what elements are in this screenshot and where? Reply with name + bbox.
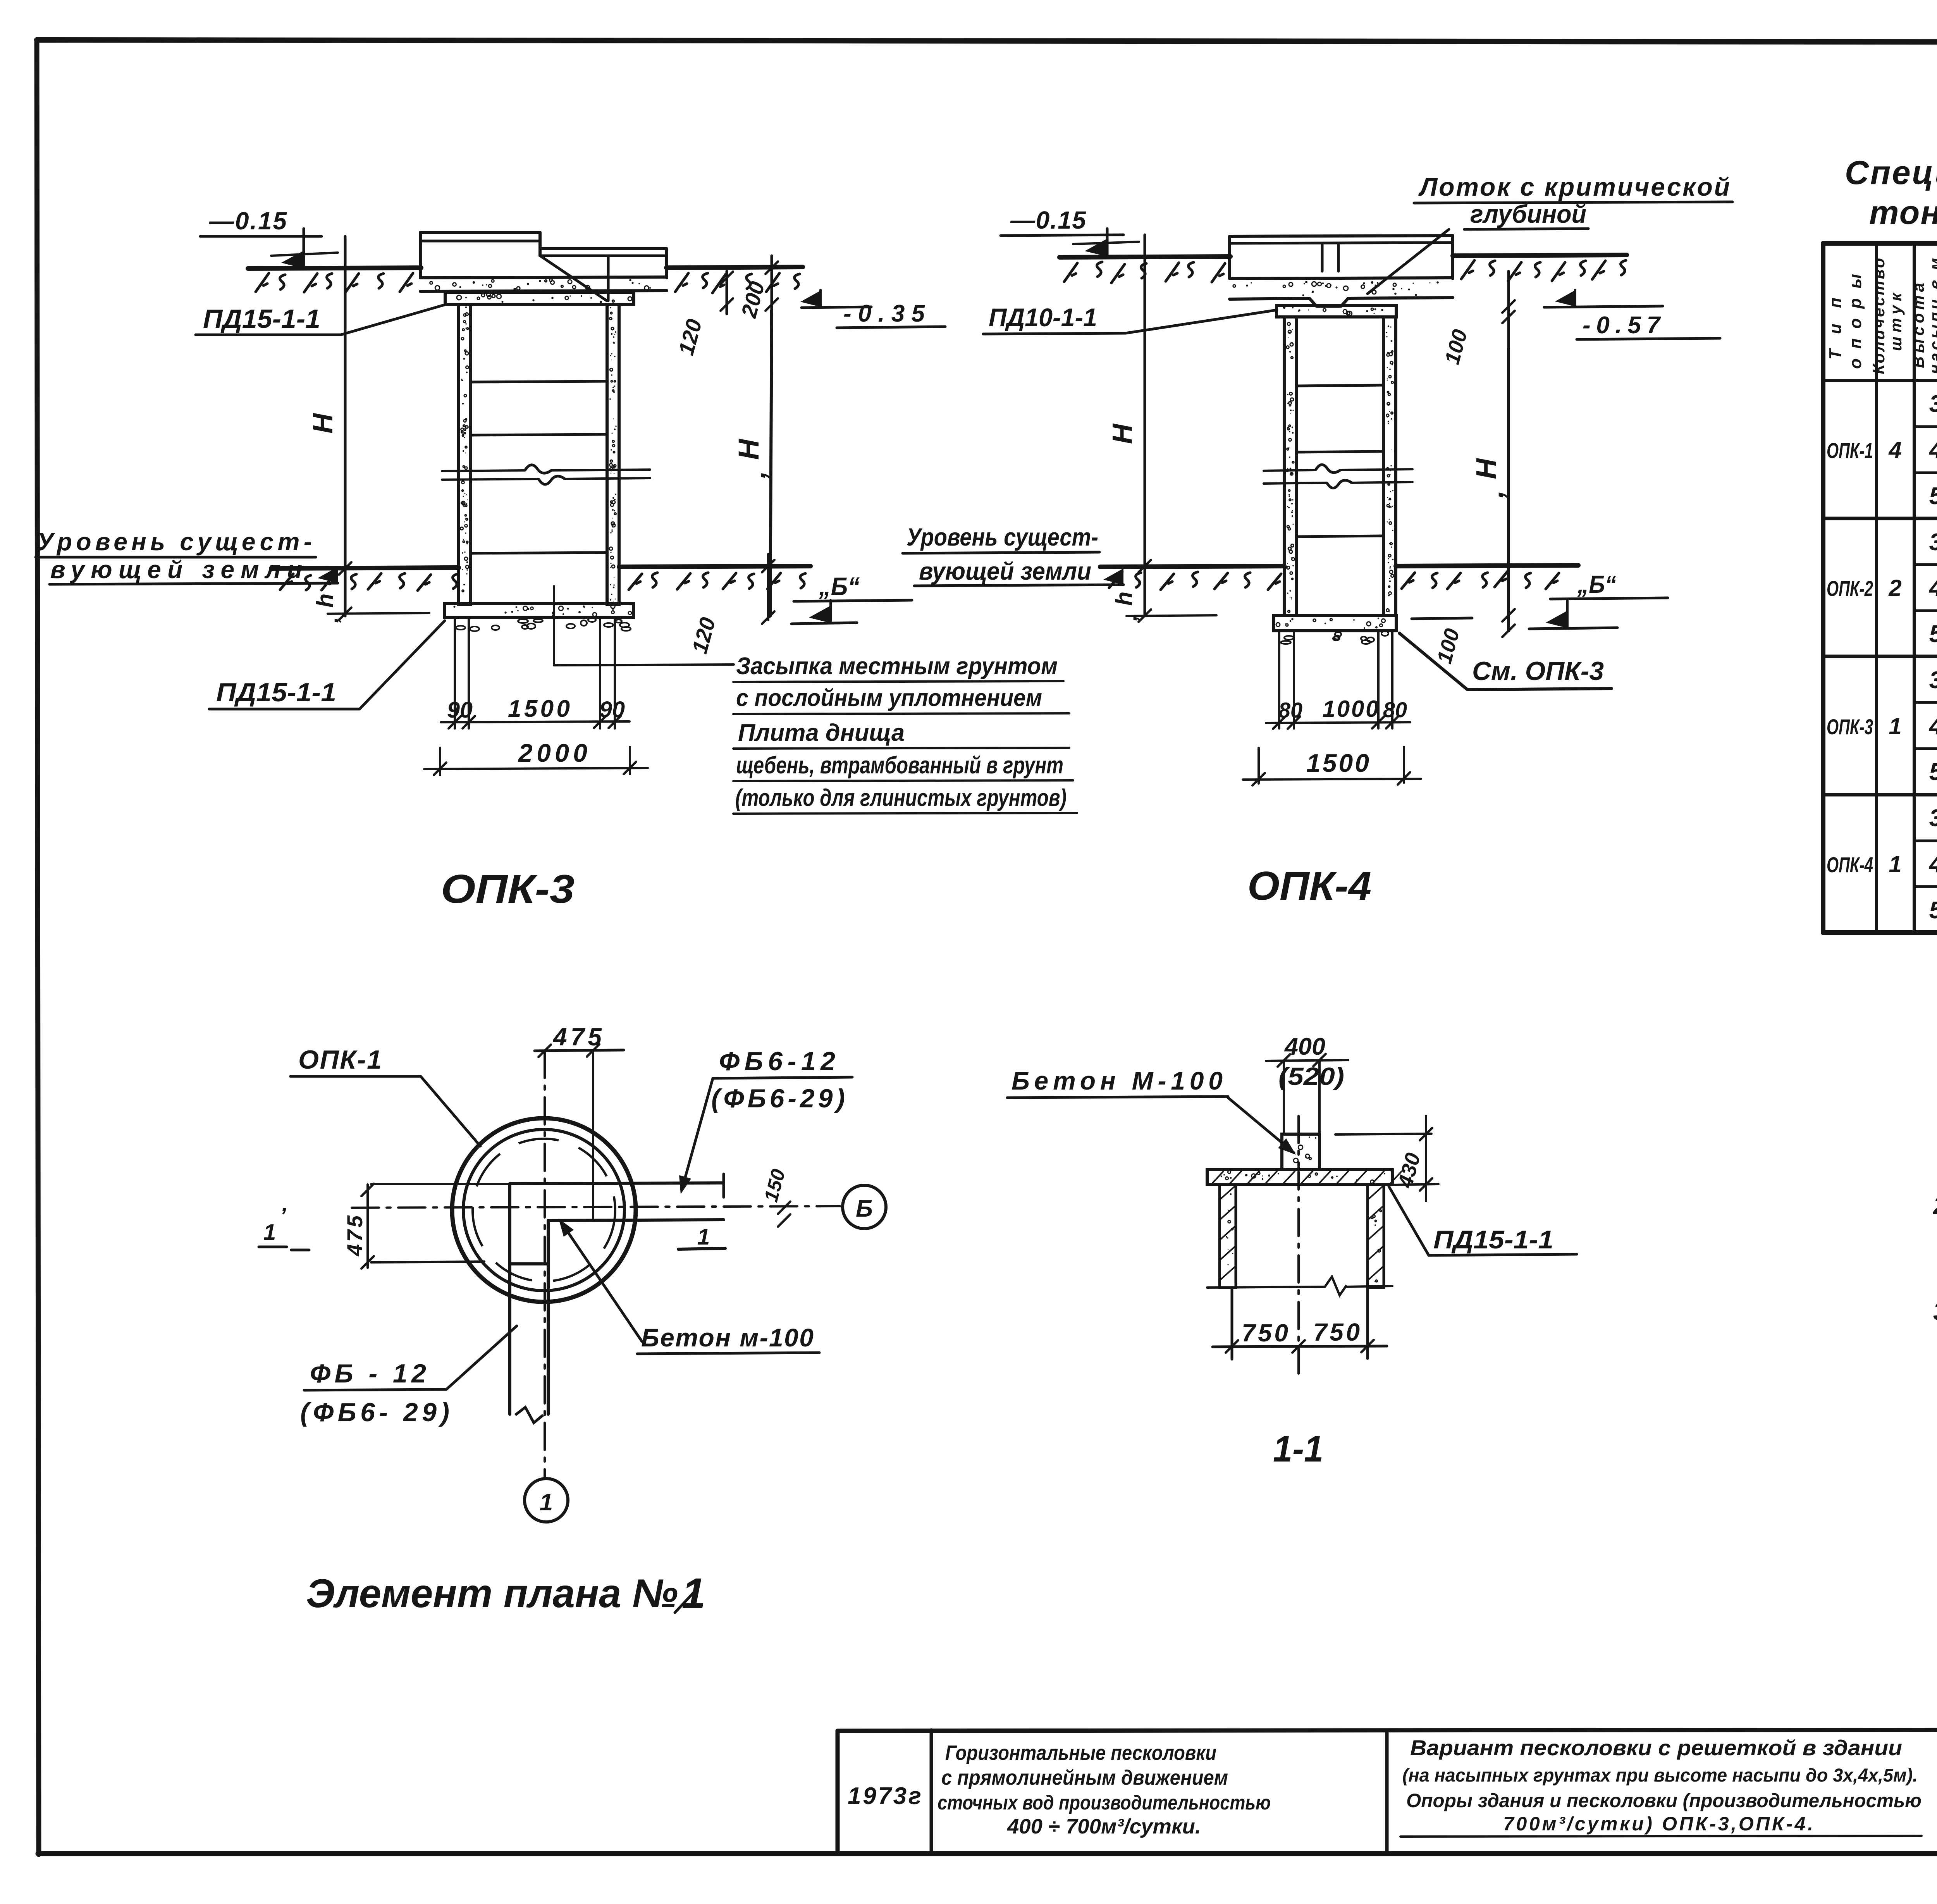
plan: label OPK-1 with leader: [291, 1045, 480, 1146]
plan: axis circle B: [843, 1185, 886, 1229]
svg-text:ОПК-1: ОПК-1: [1827, 438, 1873, 463]
OPK-3: column right wall: [607, 305, 619, 604]
svg-text:Горизонтальные песколовки: Горизонтальные песколовки: [945, 1741, 1216, 1765]
plan: centerline axis 1 vertical: [544, 1051, 546, 1477]
svg-text:2. Сборные железобетонные эл: 2. Сборные железобетонные элементы: [1932, 1191, 1937, 1220]
svg-text:5: 5: [1929, 483, 1937, 510]
svg-text:475: 475: [552, 1023, 602, 1051]
svg-text:H: H: [733, 439, 765, 460]
OPK-3: dimension 120 and 200 (top right): [674, 256, 778, 358]
svg-text:(520): (520): [1278, 1062, 1344, 1090]
OPK-4: dimension H (left vertical): [1107, 235, 1145, 616]
svg-text:„Б“: „Б“: [819, 572, 860, 601]
svg-text:тонных: тонных: [1869, 194, 1937, 231]
OPK-3: upper ground line left: [248, 268, 421, 269]
notes text: [1932, 1121, 1937, 1361]
svg-text:Засыпка местным грунтом: Засыпка местным грунтом: [736, 653, 1058, 680]
plan: section mark 1 (right): [678, 1224, 725, 1250]
section 1-1: dimension 750 750: [1213, 1287, 1387, 1359]
plan: dimension 475 left: [342, 1184, 510, 1269]
svg-text:ОПК-4: ОПК-4: [1827, 852, 1873, 877]
OPK-4: upper ground line right: [1453, 255, 1627, 256]
svg-text:3: 3: [1929, 391, 1937, 417]
OPK-3: lower ground line left: [271, 568, 459, 568]
OPK-4: label Sm. OPK-3: [1399, 633, 1612, 690]
OPK-4: dimension H1 (right vertical): [1470, 349, 1509, 631]
svg-text:штук: штук: [1887, 292, 1905, 351]
title block: project name column: [938, 1741, 1271, 1838]
OPK-3: rubble under plate: [456, 618, 631, 631]
section 1-1: left wall: [1220, 1184, 1236, 1288]
svg-text:ПД10-1-1: ПД10-1-1: [989, 303, 1097, 332]
svg-text:Плита днища: Плита днища: [738, 720, 905, 746]
OPK-3: label PD15-1-1 bottom with leader: [209, 621, 445, 709]
plan: outer shaft circle: [452, 1118, 636, 1302]
OPK-4: label Uroven suschestvuyuschey zemli: [903, 523, 1123, 586]
plan: label FB-12 (FB6-29) with leader: [300, 1326, 517, 1427]
svg-text:ПД15-1-1: ПД15-1-1: [216, 678, 336, 707]
svg-text:400 ÷ 700м³/сутки.: 400 ÷ 700м³/сутки.: [1007, 1815, 1201, 1838]
svg-text:щебень, втрамбованный в грунт: щебень, втрамбованный в грунт: [736, 752, 1063, 779]
OPK-4: dimension 100 (upper right): [1440, 271, 1515, 367]
OPK-3: bottom plate (plita dnishcha): [445, 604, 633, 618]
OPK-4: column right wall: [1383, 317, 1396, 615]
title block: year 1973: [848, 1783, 921, 1809]
svg-text:„Б“: „Б“: [1577, 570, 1616, 598]
svg-text:Элемент плана №: Элемент плана №: [306, 1571, 678, 1616]
OPK-4: column rungs: [1297, 385, 1383, 537]
svg-text:ПД15-1-1: ПД15-1-1: [203, 304, 320, 334]
OPK-4: level mark -0.15: [1001, 206, 1139, 257]
svg-text:ОПК-4: ОПК-4: [1247, 864, 1371, 909]
section 1-1: dimension 430 (right): [1335, 1116, 1438, 1201]
section 1-1: label Beton M-100 with arrow leader: [1007, 1066, 1296, 1155]
svg-text:ОПК-3: ОПК-3: [1827, 714, 1873, 739]
OPK-3: level mark B (lower right): [791, 572, 912, 624]
OPK-3: dimension H1 (right vertical): [733, 310, 772, 616]
svg-text:Количество: Количество: [1870, 258, 1888, 374]
svg-text:1: 1: [540, 1489, 553, 1516]
svg-text:90: 90: [447, 697, 473, 723]
svg-text:Уровень сущест-: Уровень сущест-: [37, 528, 312, 556]
specification table grid: [1823, 243, 1937, 933]
svg-text:3: 3: [1929, 529, 1937, 556]
OPK-4: bottom plate: [1274, 615, 1396, 631]
OPK-3: column rungs: [471, 381, 607, 553]
svg-text:475: 475: [342, 1215, 367, 1257]
plan: label Beton m-100 with arrow leader: [559, 1219, 819, 1354]
svg-text:3. Размеры в скобках для ст: 3. Размеры в скобках для стен: [1933, 1297, 1937, 1326]
svg-text:(только для глинистых грунтов): (только для глинистых грунтов): [735, 785, 1067, 811]
OPK-4: dimension line 80-1000-80: [1266, 631, 1410, 729]
OPK-3: label Uroven suschestvuyuschey zemli (existing ground level): [36, 528, 338, 584]
section 1-1: label PD15-1-1 with leader: [1389, 1186, 1577, 1255]
table header rotated: Vysota nasypi v m: [1909, 258, 1937, 374]
OPK-3: lower ground line right: [619, 566, 810, 567]
OPK-3: backfill notes text block: [733, 653, 1077, 814]
svg-text:1973г: 1973г: [848, 1783, 921, 1809]
OPK-4: earth hatch lower right: [1402, 571, 1559, 589]
svg-text:—0.15: —0.15: [1010, 206, 1086, 234]
svg-text:3: 3: [1929, 667, 1937, 694]
svg-text:с прямолинейным движением: с прямолинейным движением: [941, 1766, 1228, 1789]
table header rotated: Tip opory: [1826, 274, 1865, 369]
OPK-4: column left wall: [1284, 317, 1297, 615]
OPK-3: floor slab band: [420, 277, 667, 291]
section 1-1: dimension 400 (520): [1266, 1033, 1348, 1134]
OPK-3: mid-height break lines: [442, 465, 650, 484]
OPK-4: channel slab (lotok) band: [1230, 278, 1453, 306]
OPK-3: earth hatch upper left: [256, 273, 413, 292]
OPK-4: label Lotok s kriticheskoy glubinoy: [1368, 172, 1732, 294]
OPK-4: dimension h1 (small left): [1111, 560, 1216, 622]
OPK-3: earth hatch lower right: [629, 573, 805, 590]
plan: channel walls and corner block: [510, 1174, 724, 1423]
OPK-4: level mark B (lower right): [1529, 570, 1668, 629]
svg-text:750: 750: [1313, 1318, 1360, 1346]
OPK-3: upper ground line right: [666, 267, 803, 268]
svg-text:Опоры здания и песколовки (п: Опоры здания и песколовки (производитель…: [1406, 1790, 1922, 1811]
svg-text:Вариант песколовки с решеткой: Вариант песколовки с решеткой в здании: [1410, 1735, 1902, 1760]
svg-text:(ФБ6-29): (ФБ6-29): [711, 1084, 845, 1113]
svg-text:1-1: 1-1: [1273, 1428, 1323, 1470]
plan: inner shaft circle: [463, 1129, 624, 1291]
svg-text:’: ’: [280, 1203, 286, 1229]
svg-text:2: 2: [1888, 575, 1901, 601]
OPK-4: lower ground line left: [1100, 566, 1284, 567]
svg-text:Лоток с критической: Лоток с критической: [1418, 172, 1730, 201]
svg-text:с послойным уплотнением: с послойным уплотнением: [736, 685, 1042, 711]
svg-text:h: h: [1111, 592, 1137, 606]
OPK-3: backfill note leader line: [554, 586, 734, 665]
OPK-4: lower ground line right: [1396, 565, 1578, 566]
OPK-3: dimension h1 (small left): [312, 562, 429, 623]
plan: label FB6-12 (FB6-29) with arrow leader: [679, 1047, 852, 1194]
section 1-1: centerline: [1297, 1116, 1300, 1374]
specification table title: [1845, 154, 1937, 231]
svg-text:См. ОПК-3: См. ОПК-3: [1472, 656, 1604, 686]
OPK-4: dimension line 1500: [1243, 747, 1421, 785]
OPK-4: label PD10-1-1 (left) with leader: [983, 303, 1277, 334]
svg-text:400: 400: [1284, 1033, 1325, 1060]
svg-text:Б: Б: [856, 1195, 873, 1222]
svg-text:ОПК-3: ОПК-3: [441, 867, 575, 912]
svg-text:ОПК-1: ОПК-1: [298, 1045, 382, 1074]
section 1-1: right wall: [1368, 1184, 1384, 1288]
section 1-1: bottom break line: [1207, 1277, 1392, 1295]
table header rotated: Kolichestvo shtuk: [1870, 258, 1905, 374]
plan: axis circle 1: [525, 1479, 568, 1522]
svg-text:1: 1: [263, 1220, 276, 1245]
svg-text:ПД15-1-1: ПД15-1-1: [1433, 1225, 1553, 1254]
OPK-3: level mark -0.15: [200, 207, 338, 269]
svg-text:4: 4: [1928, 713, 1937, 740]
svg-text:3: 3: [1929, 805, 1937, 831]
OPK-3: dimension 120 (plate depth, lower): [687, 554, 774, 656]
plan: dashed circle: [473, 1139, 615, 1281]
OPK-4: upper ground line left: [1060, 257, 1230, 257]
OPK-4: dimension 100 (lower right): [1412, 609, 1515, 666]
section 1-1: view title: [1273, 1428, 1323, 1470]
svg-text:Уровень сущест-: Уровень сущест-: [907, 523, 1098, 551]
section 1-1: concrete block Beton M-100: [1282, 1134, 1319, 1170]
OPK-4: earth hatch lower left: [1109, 572, 1281, 590]
section 1-1: top plate PD15-1-1: [1207, 1170, 1402, 1184]
svg-text:,: ,: [741, 471, 771, 479]
svg-text:Бетон м-100: Бетон м-100: [641, 1323, 814, 1352]
svg-text:1: 1: [1889, 713, 1901, 739]
svg-text:сточных вод производительность: сточных вод производительностью: [938, 1792, 1271, 1814]
svg-text:4: 4: [1888, 437, 1901, 463]
svg-text:90: 90: [599, 697, 625, 722]
svg-text:глубиной: глубиной: [1470, 200, 1586, 228]
OPK-4: earth hatch upper left: [1064, 262, 1225, 283]
svg-text:h: h: [312, 594, 338, 608]
OPK-3: dimension line 90-1500-90: [441, 618, 630, 728]
OPK-3: level mark -0.35 (right): [800, 290, 945, 328]
OPK-3: dimension H (left vertical): [308, 236, 345, 616]
OPK-4: level mark -0.57 (right): [1544, 290, 1720, 339]
plan: centerline axis B horizontal: [352, 1206, 840, 1208]
svg-text:5: 5: [1929, 759, 1937, 785]
OPK-3: dimension line 2000: [424, 739, 648, 775]
OPK-3: column left wall: [459, 305, 471, 604]
OPK-3: label PD15-1-1 top with leader: [196, 304, 446, 335]
table body: mound heights 3/4/5: [1928, 391, 1937, 924]
plan: dimension 475 top: [535, 1023, 624, 1220]
svg-text:,: ,: [1478, 490, 1509, 498]
svg-text:1: 1: [1889, 851, 1901, 877]
svg-text:—0.15: —0.15: [209, 207, 287, 235]
title block grid: [838, 1729, 1937, 1854]
OPK-4: mid-height break lines: [1264, 465, 1412, 488]
plan: dimension 150 right: [760, 1167, 790, 1227]
OPK-4: plate PD10-1-1 under column: [1276, 305, 1396, 317]
svg-text:1: 1: [697, 1224, 710, 1250]
svg-text:ОПК-2: ОПК-2: [1827, 576, 1873, 601]
OPK-3: building outline above support: [420, 232, 667, 301]
svg-text:80: 80: [1383, 697, 1407, 722]
svg-text:4: 4: [1928, 851, 1937, 878]
svg-text:H: H: [1107, 423, 1138, 444]
svg-text:Тип: Тип: [1826, 298, 1845, 360]
svg-text:4: 4: [1928, 575, 1937, 601]
svg-text:4: 4: [1928, 437, 1937, 463]
svg-text:700м³/сутки) ОПК-3,ОПК-4.: 700м³/сутки) ОПК-3,ОПК-4.: [1503, 1813, 1813, 1835]
OPK-4: view title: [1247, 864, 1371, 909]
OPK-3: plate PD15-1-1 under column (top): [445, 292, 634, 305]
svg-text:5: 5: [1929, 897, 1937, 924]
svg-text:вующей земли: вующей земли: [919, 557, 1091, 585]
svg-text:(на насыпных грунтах при высот: (на насыпных грунтах при высоте насыпи д…: [1402, 1765, 1918, 1786]
svg-text:H: H: [308, 413, 339, 434]
OPK-3: earth hatch lower left: [280, 573, 458, 590]
svg-text:750: 750: [1242, 1319, 1288, 1347]
plan: section mark 1' (left): [259, 1203, 309, 1250]
table body: support type labels and counts: [1827, 437, 1902, 877]
title block: sheet content column: [1400, 1735, 1922, 1837]
svg-text:80: 80: [1278, 698, 1302, 722]
svg-text:насыпи в м: насыпи в м: [1926, 258, 1937, 374]
OPK-3: view title: [441, 867, 575, 912]
OPK-4: building outline: [1230, 236, 1453, 279]
svg-text:H: H: [1470, 458, 1502, 479]
OPK-4: rubble under plate: [1281, 631, 1388, 644]
OPK-3: earth hatch upper right: [675, 273, 800, 293]
OPK-4: earth hatch upper right: [1461, 260, 1626, 281]
svg-text:5: 5: [1929, 621, 1937, 647]
plan: view title Element plana No1: [306, 1570, 705, 1617]
svg-text:(ФБ6- 29): (ФБ6- 29): [300, 1398, 449, 1427]
